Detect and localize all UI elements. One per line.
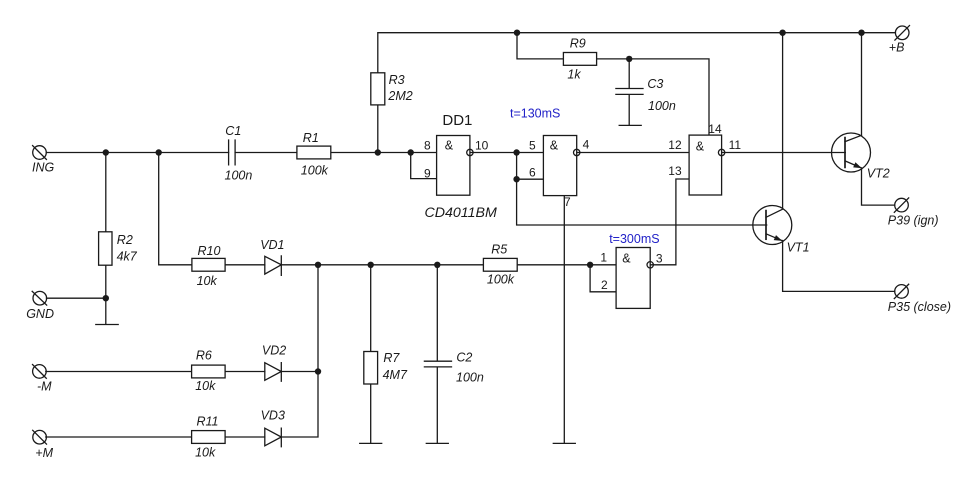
svg-text:R6: R6 xyxy=(196,348,212,362)
svg-text:4M7: 4M7 xyxy=(383,368,408,382)
svg-text:1k: 1k xyxy=(567,68,581,82)
svg-text:11: 11 xyxy=(729,138,742,152)
svg-text:5: 5 xyxy=(529,139,536,153)
svg-text:13: 13 xyxy=(668,164,682,178)
svg-text:14: 14 xyxy=(708,122,722,136)
svg-text:&: & xyxy=(622,252,631,266)
svg-text:2: 2 xyxy=(601,278,608,292)
svg-text:1: 1 xyxy=(600,251,607,265)
svg-text:VD1: VD1 xyxy=(260,238,284,252)
svg-text:C2: C2 xyxy=(456,350,472,364)
svg-text:9: 9 xyxy=(424,166,431,180)
svg-text:P35 (close): P35 (close) xyxy=(888,300,951,314)
svg-text:3: 3 xyxy=(656,252,663,266)
svg-text:&: & xyxy=(696,139,705,153)
svg-text:t=300mS: t=300mS xyxy=(609,232,659,246)
svg-text:t=130mS: t=130mS xyxy=(510,107,560,121)
svg-text:DD1: DD1 xyxy=(442,112,472,129)
svg-text:-M: -M xyxy=(37,379,52,393)
svg-text:C3: C3 xyxy=(647,77,663,91)
svg-text:100k: 100k xyxy=(301,163,329,177)
svg-text:12: 12 xyxy=(668,138,682,152)
svg-text:R11: R11 xyxy=(197,415,219,429)
svg-text:100n: 100n xyxy=(456,370,484,384)
svg-text:VD2: VD2 xyxy=(262,344,286,358)
svg-text:&: & xyxy=(550,139,559,153)
svg-text:R10: R10 xyxy=(198,244,221,258)
svg-text:R5: R5 xyxy=(491,242,507,256)
svg-text:R1: R1 xyxy=(303,131,319,145)
svg-text:10: 10 xyxy=(475,138,489,152)
svg-text:ING: ING xyxy=(32,161,55,175)
svg-text:VD3: VD3 xyxy=(261,409,285,423)
svg-text:10k: 10k xyxy=(195,379,216,393)
svg-text:4: 4 xyxy=(583,138,590,152)
svg-text:R2: R2 xyxy=(117,233,133,247)
svg-text:R9: R9 xyxy=(570,37,586,51)
svg-text:P39 (ign): P39 (ign) xyxy=(888,214,939,228)
svg-text:CD4011BM: CD4011BM xyxy=(425,205,497,221)
svg-text:8: 8 xyxy=(424,139,431,153)
svg-text:2M2: 2M2 xyxy=(387,89,412,103)
svg-text:VT1: VT1 xyxy=(787,240,810,254)
svg-text:VT2: VT2 xyxy=(867,167,890,181)
svg-text:&: & xyxy=(445,139,454,153)
svg-text:100n: 100n xyxy=(648,99,676,113)
svg-text:100k: 100k xyxy=(487,272,515,286)
svg-text:4k7: 4k7 xyxy=(117,250,138,264)
svg-text:R7: R7 xyxy=(383,351,400,365)
svg-text:7: 7 xyxy=(564,195,571,209)
svg-text:+M: +M xyxy=(35,446,53,460)
svg-text:+B: +B xyxy=(889,41,905,55)
svg-text:GND: GND xyxy=(26,307,54,321)
svg-text:R3: R3 xyxy=(389,73,405,87)
svg-text:10k: 10k xyxy=(197,274,218,288)
svg-text:6: 6 xyxy=(529,166,536,180)
svg-text:100n: 100n xyxy=(225,168,253,182)
svg-text:10k: 10k xyxy=(195,445,216,459)
svg-text:C1: C1 xyxy=(225,124,241,138)
